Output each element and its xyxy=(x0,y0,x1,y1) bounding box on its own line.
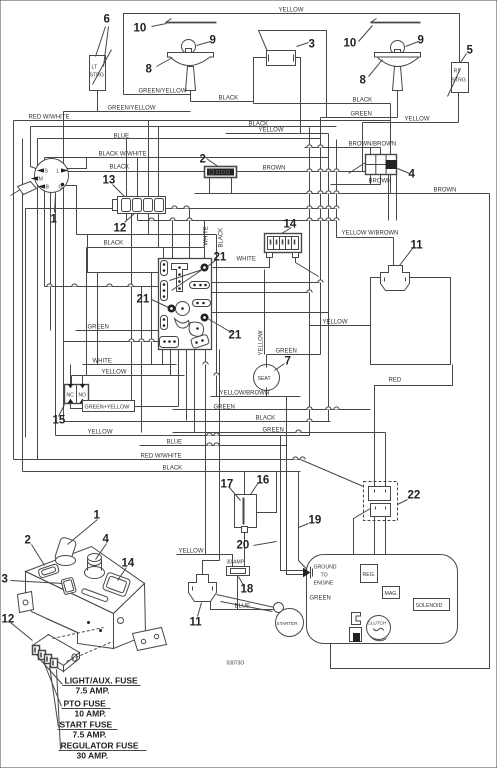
svg-text:BLACK: BLACK xyxy=(104,241,124,247)
svg-text:13: 13 xyxy=(103,175,116,187)
svg-text:1: 1 xyxy=(51,214,58,226)
svg-text:03073O: 03073O xyxy=(227,661,245,667)
svg-text:GREEN: GREEN xyxy=(351,112,372,118)
svg-text:RED W/WHITE: RED W/WHITE xyxy=(29,115,70,121)
svg-text:GREEN/YELLOW: GREEN/YELLOW xyxy=(139,89,187,95)
svg-text:REG.: REG. xyxy=(363,572,376,578)
svg-text:16: 16 xyxy=(257,475,270,487)
svg-text:BLACK: BLACK xyxy=(163,466,183,472)
svg-text:4: 4 xyxy=(103,534,110,546)
svg-text:BROWN: BROWN xyxy=(434,188,457,194)
svg-text:BROWN/BROWN: BROWN/BROWN xyxy=(349,142,397,148)
svg-text:21: 21 xyxy=(229,330,242,342)
svg-text:3: 3 xyxy=(309,39,315,51)
svg-text:9: 9 xyxy=(418,35,424,47)
svg-text:7: 7 xyxy=(285,356,291,368)
svg-text:7.5 AMP.: 7.5 AMP. xyxy=(73,730,107,740)
svg-text:CLUTCH: CLUTCH xyxy=(368,621,387,626)
svg-text:21: 21 xyxy=(214,252,227,264)
svg-text:20: 20 xyxy=(237,540,250,552)
svg-text:10: 10 xyxy=(134,23,147,35)
svg-text:STARTER: STARTER xyxy=(277,621,299,626)
svg-text:GREEN/YELLOW: GREEN/YELLOW xyxy=(108,106,156,112)
svg-text:GREEN: GREEN xyxy=(214,405,235,411)
svg-text:SEAT: SEAT xyxy=(258,376,272,382)
svg-text:RED: RED xyxy=(389,378,402,384)
svg-text:RT: RT xyxy=(454,69,462,75)
svg-text:5: 5 xyxy=(467,45,474,57)
svg-text:14: 14 xyxy=(122,558,135,570)
svg-text:STRG: STRG xyxy=(90,73,104,79)
svg-text:BLACK: BLACK xyxy=(110,165,130,171)
svg-text:TO: TO xyxy=(321,573,328,579)
svg-text:M: M xyxy=(39,177,43,183)
svg-text:YELLOW: YELLOW xyxy=(102,370,127,376)
svg-text:BLUE: BLUE xyxy=(167,440,183,446)
svg-text:BROWN: BROWN xyxy=(369,179,392,185)
svg-text:10: 10 xyxy=(344,38,357,50)
svg-text:2: 2 xyxy=(25,535,31,547)
svg-text:YELLOW: YELLOW xyxy=(259,128,284,134)
svg-text:8: 8 xyxy=(146,64,153,76)
svg-text:YELLOW: YELLOW xyxy=(323,320,348,326)
svg-text:BLUE: BLUE xyxy=(235,604,251,610)
svg-text:REGULATOR FUSE: REGULATOR FUSE xyxy=(61,741,139,751)
svg-text:GREEN: GREEN xyxy=(276,349,297,355)
svg-text:STRG: STRG xyxy=(452,78,466,84)
svg-text:22: 22 xyxy=(408,490,421,502)
svg-text:17: 17 xyxy=(221,479,234,491)
svg-text:GREEN+YELLOW: GREEN+YELLOW xyxy=(85,405,131,411)
svg-text:WHITE: WHITE xyxy=(204,226,210,245)
svg-text:BROWN: BROWN xyxy=(263,166,286,172)
svg-text:12: 12 xyxy=(114,223,127,235)
svg-text:11: 11 xyxy=(411,240,424,252)
svg-text:15: 15 xyxy=(53,415,66,427)
svg-text:WHITE: WHITE xyxy=(237,257,256,263)
svg-text:11: 11 xyxy=(190,617,203,629)
svg-text:YELLOW: YELLOW xyxy=(259,330,265,355)
svg-text:B: B xyxy=(46,185,50,191)
svg-text:14: 14 xyxy=(284,219,297,231)
svg-text:GREEN: GREEN xyxy=(88,325,109,331)
svg-text:10 AMP.: 10 AMP. xyxy=(75,709,107,719)
svg-text:PTO FUSE: PTO FUSE xyxy=(64,699,107,709)
svg-text:4: 4 xyxy=(409,169,416,181)
svg-text:YELLOW: YELLOW xyxy=(88,430,113,436)
svg-text:BLACK W/WHITE: BLACK W/WHITE xyxy=(99,152,147,158)
svg-text:GREEN: GREEN xyxy=(263,428,284,434)
svg-text:BLACK: BLACK xyxy=(256,416,276,422)
svg-text:LT: LT xyxy=(92,65,98,71)
svg-text:NC: NC xyxy=(67,393,75,399)
svg-text:YELLOW: YELLOW xyxy=(179,549,204,555)
svg-text:SOLENOID: SOLENOID xyxy=(416,603,443,609)
svg-text:9: 9 xyxy=(210,35,216,47)
svg-text:YELLOW/BROWN: YELLOW/BROWN xyxy=(220,391,270,397)
svg-text:1: 1 xyxy=(94,510,101,522)
svg-text:YELLOW W/BROWN: YELLOW W/BROWN xyxy=(342,231,399,237)
svg-text:BLACK: BLACK xyxy=(219,228,225,248)
svg-text:START FUSE: START FUSE xyxy=(60,720,113,730)
svg-text:YELLOW: YELLOW xyxy=(405,117,430,123)
svg-text:MAG.: MAG. xyxy=(385,591,398,597)
svg-text:RED W/WHITE: RED W/WHITE xyxy=(141,454,182,460)
svg-text:NO: NO xyxy=(79,393,87,399)
svg-text:GROUND: GROUND xyxy=(314,565,337,571)
svg-text:3: 3 xyxy=(2,574,8,586)
svg-text:12: 12 xyxy=(2,614,15,626)
svg-text:S: S xyxy=(45,169,49,175)
svg-text:8: 8 xyxy=(360,75,367,87)
svg-text:BLACK: BLACK xyxy=(353,98,373,104)
svg-text:30 AMP: 30 AMP xyxy=(227,560,245,566)
svg-text:19: 19 xyxy=(309,515,322,527)
svg-text:30 AMP.: 30 AMP. xyxy=(77,751,109,761)
svg-text:BLACK: BLACK xyxy=(219,96,239,102)
svg-text:WHITE: WHITE xyxy=(93,359,112,365)
svg-text:ENGINE: ENGINE xyxy=(314,581,334,587)
svg-text:21: 21 xyxy=(137,294,150,306)
svg-text:6: 6 xyxy=(104,14,110,26)
svg-text:2: 2 xyxy=(200,154,206,166)
svg-text:GREEN: GREEN xyxy=(310,596,331,602)
svg-text:7.5 AMP.: 7.5 AMP. xyxy=(76,686,110,696)
svg-text:LIGHT/AUX. FUSE: LIGHT/AUX. FUSE xyxy=(65,676,139,686)
svg-text:L: L xyxy=(57,169,60,175)
svg-text:18: 18 xyxy=(241,584,254,596)
svg-text:YELLOW: YELLOW xyxy=(279,8,304,14)
svg-text:BLUE: BLUE xyxy=(114,134,130,140)
